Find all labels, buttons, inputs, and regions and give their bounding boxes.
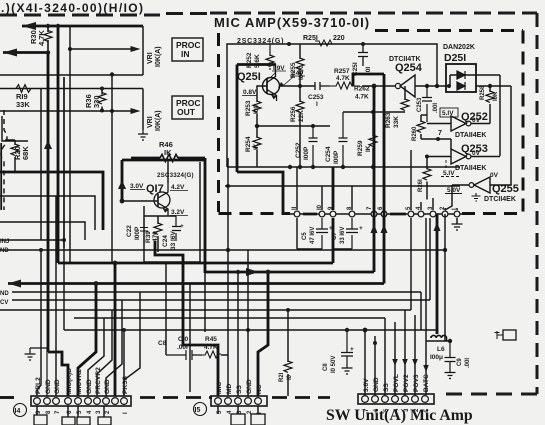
svg-text:7: 7 (438, 130, 442, 137)
connector bar left (31, 396, 131, 406)
wire POVL drop (394, 322, 396, 395)
pin numbers below (36, 410, 129, 414)
svg-text:DTAII4EK: DTAII4EK (455, 132, 486, 139)
page edge artifact line (0, 143, 2, 210)
ground C11 (342, 368, 353, 374)
wire x238 down (237, 272, 239, 396)
svg-text:CV: CV (0, 300, 8, 306)
rotated net labels (35, 367, 129, 394)
wire horizontal y88 + resistor R19 (0, 88, 143, 90)
svg-text:QI7: QI7 (146, 183, 164, 195)
svg-text:3.2V: 3.2V (171, 209, 185, 216)
transistor Q251 (263, 78, 280, 95)
small box below MICAD (62, 417, 75, 425)
svg-text:4.7K: 4.7K (37, 30, 46, 46)
svg-text:R2I: R2I (279, 372, 285, 382)
wire x124 down (123, 330, 125, 396)
MIC AMP dashed border right (522, 31, 525, 214)
wire Q252 out to R258 (471, 122, 490, 125)
Q17 box right edge (144, 162, 200, 262)
wire thick y158 with resistor R46 (131, 157, 205, 160)
svg-text:CI0: CI0 (178, 336, 189, 343)
wire y112 (343, 111, 405, 113)
svg-text:MIC AMP(X59-3710-0I): MIC AMP(X59-3710-0I) (214, 15, 370, 30)
potentiometer VR1 (proc in) (142, 26, 144, 75)
pin 4 (418, 211, 424, 217)
connector bar right (358, 394, 434, 404)
svg-text:SW Unit(A) Mic Amp: SW Unit(A) Mic Amp (326, 407, 473, 424)
wire thick left down (236, 65, 239, 173)
wire pin3 up (432, 198, 434, 210)
wire base left (257, 86, 267, 95)
wire x126 down jog (88, 318, 104, 396)
svg-text:GND: GND (246, 379, 253, 394)
wire y263 thick (58, 218, 333, 263)
svg-text:CII: CII (323, 363, 329, 371)
svg-text:22K: 22K (298, 110, 305, 122)
svg-text:I: I (316, 101, 318, 108)
svg-text:VRI: VRI (147, 52, 154, 64)
svg-text:D25I: D25I (444, 52, 466, 64)
wire pin4 up (420, 202, 422, 210)
svg-text:.00I: .00I (177, 344, 188, 351)
capacitor C22 (140, 218, 148, 245)
voltage 4.2V (171, 184, 185, 191)
capacitor C11 electrolytic (341, 330, 353, 368)
wire pin1 down to ground (456, 218, 458, 224)
inverter Q253 (461, 143, 488, 155)
svg-text:I0K: I0K (493, 91, 499, 101)
wire x136 down jog (97, 310, 112, 396)
wire horizontal y196 (0, 196, 95, 230)
wire Q255 in (490, 184, 511, 186)
resistor R252 (269, 44, 271, 70)
pins (34, 398, 41, 405)
dashed cut line right (272, 396, 330, 399)
wire vertical x112 (111, 75, 113, 264)
resistor R253 (256, 95, 258, 126)
svg-text:3.6V: 3.6V (363, 378, 370, 392)
inductor L6 (431, 335, 447, 338)
capacitor C251 (358, 44, 368, 66)
svg-text:.)(X4I-3240-00)(H/IO): .)(X4I-3240-00)(H/IO) (1, 1, 144, 15)
wire horizontal y222 (0, 222, 85, 240)
small box below MICVR2 (77, 417, 90, 425)
svg-text:SS: SS (383, 383, 390, 392)
svg-text:MIC: MIC (216, 382, 223, 394)
svg-text:C252: C252 (295, 142, 302, 158)
svg-text:R254: R254 (245, 136, 252, 152)
svg-text:GND: GND (104, 379, 111, 394)
capacitor C5 electrolytic (316, 218, 328, 249)
node y126 (255, 124, 259, 128)
svg-text:I00K: I00K (298, 66, 305, 80)
capacitor C9 (445, 341, 456, 373)
svg-text:Q254: Q254 (395, 62, 423, 74)
svg-text:PRCVR2: PRCVR2 (95, 367, 102, 394)
pin 9 (330, 211, 336, 217)
svg-text:I00P: I00P (333, 150, 340, 164)
dashed cut line far left (0, 396, 14, 399)
svg-text:PKSS: PKSS (122, 375, 129, 394)
wire y86 to Q254 (362, 85, 395, 87)
svg-text:POV3: POV3 (413, 374, 420, 392)
stub wires below mid connector (218, 406, 258, 414)
wire pin2 up (444, 208, 446, 210)
voltage 5.1V (442, 110, 454, 117)
pin numbers right (364, 408, 430, 412)
ground under VR1 (138, 130, 148, 140)
connector bus line (290, 213, 462, 215)
wire pin8 up (351, 186, 353, 210)
wire vertical bus x58 (57, 26, 60, 263)
wire vertical bus x41 (40, 89, 42, 241)
resistor R46 label (159, 140, 173, 157)
wire x421 pin4 drop (420, 292, 422, 330)
svg-text:C22: C22 (126, 225, 133, 237)
resistor R254 (256, 126, 258, 167)
pin 7 (371, 211, 377, 217)
diode D251b (457, 82, 465, 90)
svg-text:C253: C253 (417, 97, 423, 112)
wire 3.6V drop (364, 330, 366, 395)
thick staircase to MICAD pin (48, 352, 68, 396)
svg-text:MD: MD (226, 384, 233, 394)
wire x190 down (189, 284, 191, 393)
svg-text:3.0V: 3.0V (130, 183, 144, 190)
SW Unit title (326, 407, 473, 424)
Q17 stage box left thick (122, 159, 205, 162)
capacitor C24 electrolytic (172, 216, 181, 241)
Q251 label (237, 71, 261, 83)
wire y272 thick with arrow (205, 271, 374, 274)
wire x268 thick down (258, 272, 268, 396)
voltage 5.0V (447, 187, 461, 194)
capacitor C7 electrolytic (346, 218, 358, 249)
resistor R251 on top rail (303, 35, 345, 42)
svg-text:Q25I: Q25I (237, 71, 261, 83)
svg-text:MICVR2: MICVR2 (76, 369, 83, 394)
wire y283 thick arrow-left (8, 282, 384, 285)
svg-text:NC: NC (256, 384, 263, 394)
wire thick x437 supply (436, 214, 439, 334)
wire x115 down thick (114, 263, 117, 396)
svg-text:MIC(A)D: MIC(A)D (66, 368, 73, 394)
svg-text:2SC3324(G): 2SC3324(G) (237, 38, 284, 45)
wire x228 down (227, 250, 229, 396)
wire pin11 up (296, 167, 298, 210)
svg-text:C24: C24 (162, 235, 169, 247)
svg-text:I00: I00 (253, 105, 260, 114)
svg-text:5.0V: 5.0V (447, 187, 461, 194)
outer dashed border top (0, 14, 210, 16)
wire horizontal y75 (0, 74, 143, 76)
pin 1 (454, 211, 460, 217)
svg-text:4.2V: 4.2V (171, 184, 185, 191)
resistor R36 (101, 89, 103, 111)
wire horizontal y110 wiper (0, 110, 138, 112)
resistor R39 (157, 216, 159, 252)
resistor R255 (299, 44, 301, 86)
wire C5 to gnd line (297, 218, 322, 249)
svg-text:IK: IK (365, 145, 372, 152)
wire thick x283 down (237, 172, 283, 212)
wire to Q253 (421, 139, 451, 149)
wire D251 out bottom (446, 86, 511, 185)
svg-text:POV2: POV2 (403, 374, 410, 392)
svg-text:330: 330 (92, 95, 101, 108)
wire pin10 up (321, 186, 323, 210)
resistor R261 (426, 157, 428, 200)
pin 2 (442, 211, 448, 217)
voltage 3.2V (171, 209, 185, 216)
pin 8 (349, 211, 355, 217)
svg-text:+: + (350, 346, 354, 353)
wire y330 (64, 329, 437, 331)
wire SS drop (384, 318, 386, 395)
wire x156 down jog (124, 292, 140, 396)
wire emitter to output y86 (279, 85, 315, 87)
pin 3 (430, 211, 436, 217)
svg-text:C5: C5 (302, 232, 308, 240)
wire pin9 up thick (332, 167, 335, 210)
inverter Q254 (400, 75, 415, 97)
svg-text:5.IV: 5.IV (443, 170, 455, 177)
wire bottom rail y167 (268, 166, 460, 168)
wire thick jog over R262 (353, 74, 384, 86)
wire BATC drop (425, 341, 427, 395)
wire vertical bus x64 (63, 77, 65, 248)
resistor R21 (287, 310, 289, 396)
svg-text:.00I: .00I (433, 103, 439, 113)
potentiometer VR1 (proc out) (142, 89, 144, 131)
inverter Q252 (461, 111, 488, 123)
svg-text:0V: 0V (490, 172, 499, 179)
svg-text:C253: C253 (308, 94, 324, 101)
svg-text:+: + (180, 223, 184, 230)
wire y186 (225, 185, 460, 187)
outer dashed border bottom-right (437, 393, 537, 396)
rotated net labels mid (216, 379, 263, 394)
svg-text:47 I6V: 47 I6V (310, 227, 316, 244)
wire Q255 out (445, 185, 469, 210)
small box below mid pin2 (251, 414, 265, 425)
svg-text:C254: C254 (325, 146, 332, 162)
voltage 0.8V (243, 89, 257, 96)
MIC AMP dashed border left (217, 33, 220, 212)
dashed link line left edge (1, 110, 7, 210)
wire y49 wiper feed (70, 48, 138, 50)
wire y216 tie (144, 215, 176, 217)
pin numbers mid (217, 410, 263, 414)
wire y240 stub (0, 239, 64, 241)
svg-text:I0K(A): I0K(A) (155, 110, 162, 131)
pin numbers (292, 204, 458, 210)
resistor R258 (489, 86, 491, 123)
capacitor C254 (339, 112, 348, 167)
svg-text:DAN202K: DAN202K (443, 44, 475, 51)
capacitor C8 label (158, 340, 167, 347)
svg-text:2SC3324(G): 2SC3324(G) (157, 172, 194, 179)
box corner far left (2, 116, 28, 141)
resistor R30 (47, 26, 49, 52)
transistor Q17 labels (130, 172, 194, 195)
wire pin6 riser thick (383, 74, 386, 284)
svg-text:33K: 33K (16, 100, 30, 109)
svg-text:PRL2: PRL2 (35, 377, 42, 394)
box PROC IN (172, 38, 203, 61)
svg-text:I0 50V: I0 50V (331, 356, 337, 373)
resistor R256 (299, 86, 301, 167)
connector ref (14) (14, 404, 27, 417)
wire POV2 drop (404, 310, 406, 395)
svg-text:R255: R255 (290, 62, 297, 78)
ground stub left (25, 348, 48, 396)
svg-text:R39: R39 (145, 231, 152, 243)
wire pin7 riser thick (373, 86, 376, 272)
wire x445 down (444, 214, 446, 341)
svg-text:IN: IN (181, 49, 190, 59)
ground Q255 (472, 193, 481, 201)
svg-text:33K: 33K (393, 116, 400, 128)
svg-text:GND: GND (373, 377, 380, 392)
wire x146 down jog (106, 300, 122, 396)
svg-text:ND: ND (0, 248, 9, 254)
resistor R259 (372, 112, 374, 167)
wire x228 vertical (227, 158, 229, 250)
MIC AMP dashed border bottom (219, 212, 524, 215)
svg-text:0.8V: 0.8V (243, 89, 257, 96)
capacitor C10 (177, 336, 189, 351)
diode pack D251 (443, 44, 475, 64)
svg-text:VRI: VRI (147, 116, 154, 128)
wire y249 long (0, 249, 445, 251)
pin 5 (408, 211, 414, 217)
resistor R263 (404, 86, 406, 112)
resistor R262 label (354, 86, 370, 101)
wire D251 out top (476, 75, 500, 156)
rotated net labels right (363, 374, 430, 392)
small box below PRCVR2 (98, 417, 111, 425)
pin 10 (319, 211, 325, 217)
voltage 1.4V (292, 70, 304, 77)
svg-text:220: 220 (333, 35, 345, 42)
connector ref (15) (194, 403, 207, 416)
wire x205 continuation (204, 272, 206, 332)
svg-text:I5: I5 (195, 407, 201, 414)
wire collector up (167, 160, 169, 183)
wire Q253 out (471, 156, 500, 158)
wire POV3 drop (414, 315, 416, 395)
transistor Q17 (154, 192, 170, 208)
wire y292 (12, 291, 421, 293)
outer dashed border right (536, 13, 539, 394)
wire GND drop (374, 336, 376, 395)
svg-text:R253: R253 (245, 100, 252, 116)
header title text (1, 1, 144, 15)
pin 6 (381, 211, 387, 217)
connector bar mid (211, 396, 267, 406)
wire x64 down (63, 77, 65, 330)
svg-text:OUT: OUT (177, 107, 196, 117)
svg-text:GND: GND (86, 379, 93, 394)
pin 11 (294, 211, 300, 217)
wire vertical bus x48 (47, 53, 50, 353)
voltage 5.1V q253 (443, 170, 455, 177)
MIC AMP title (214, 15, 370, 30)
svg-text:POVL: POVL (393, 374, 400, 392)
left edge partial labels (0, 239, 9, 306)
svg-text:I0: I0 (287, 374, 293, 380)
svg-text:.00I: .00I (465, 358, 471, 368)
svg-text:+: + (359, 225, 363, 232)
dashed cut line left (140, 396, 212, 399)
svg-text:R260: R260 (412, 126, 418, 141)
svg-text:I0K(A): I0K(A) (155, 46, 162, 67)
small box below pin PRL2 (34, 415, 47, 425)
svg-text:I00P: I00P (134, 226, 141, 240)
inner supply rail box (227, 44, 437, 167)
wire x56 gnd (55, 196, 57, 396)
small box B+ (503, 330, 516, 340)
wire Q252 in (427, 122, 451, 124)
svg-text:DTAII4EK: DTAII4EK (455, 165, 486, 172)
inverter Q255 (490, 172, 519, 195)
svg-text:ND: ND (0, 291, 9, 297)
wire y341 node (426, 340, 450, 342)
inverter Q254 labels (389, 56, 423, 74)
svg-text:I00μ: I00μ (430, 354, 443, 361)
wire pin1 up (456, 208, 458, 210)
wire Q253 in (427, 156, 451, 158)
wire x248 down (247, 250, 249, 396)
wire thick corner x205 down (204, 158, 207, 273)
small box below mid pin4 (231, 414, 245, 425)
svg-text:IK: IK (253, 143, 260, 150)
svg-text:L6: L6 (437, 346, 445, 353)
wire y310 (0, 309, 411, 311)
svg-text:R256: R256 (290, 106, 297, 122)
thick MICVR2 drop (78, 284, 96, 397)
svg-text:R26I: R26I (418, 179, 424, 192)
emitter thick staircase to MIC pin (183, 285, 218, 396)
wire y300 (12, 218, 430, 300)
svg-text:470: 470 (152, 231, 159, 242)
MIC AMP dashed border top-right (375, 29, 523, 32)
svg-text:INJ: INJ (0, 239, 9, 245)
resistor R260 (420, 115, 422, 139)
wire y318 (74, 317, 385, 319)
wire horizontal thick y172 (0, 172, 103, 230)
ground pin1 (452, 224, 463, 230)
svg-text:GND: GND (45, 379, 52, 394)
voltage 1.9V (273, 65, 285, 72)
svg-text:DTCII4EK: DTCII4EK (484, 196, 516, 203)
svg-text:R258: R258 (480, 85, 486, 100)
svg-text:SS: SS (236, 385, 243, 394)
svg-text:33 I6V: 33 I6V (170, 231, 177, 250)
stub wires below connector (37, 406, 104, 417)
svg-text:4.7K: 4.7K (355, 94, 369, 101)
wire arrow-left y26 (22, 25, 143, 28)
wire thick emitter down staircase (155, 241, 183, 285)
resistor R257 (334, 68, 350, 82)
svg-text:4.7K: 4.7K (204, 344, 218, 351)
wire arrow-left y52 (3, 51, 48, 54)
svg-text:GND: GND (54, 379, 61, 394)
svg-text:C9: C9 (457, 358, 463, 366)
wire x426 batc riser (425, 218, 427, 341)
